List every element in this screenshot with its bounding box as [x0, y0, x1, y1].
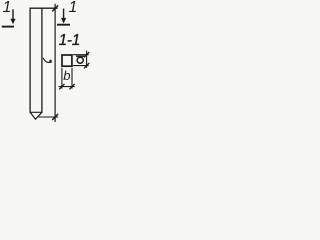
- tick bottom: [52, 114, 58, 120]
- pile right edge: [41, 8, 43, 113]
- tick top: [52, 5, 58, 11]
- dimension line l (vertical): [54, 4, 56, 122]
- label b (rotated, right): [76, 56, 85, 63]
- svg-text:1: 1: [3, 0, 12, 16]
- svg-text:b: b: [63, 68, 70, 83]
- section square: [62, 55, 72, 66]
- section arrow right: [61, 9, 66, 24]
- right b dimension: extension lines: [73, 54, 89, 56]
- pile shaft bottom line: [30, 111, 43, 113]
- bottom b ticks: [59, 84, 64, 89]
- section cut bar left: [2, 26, 14, 28]
- bottom extension line: [39, 116, 59, 118]
- label l (rotated script l): [43, 58, 52, 63]
- svg-text:1: 1: [69, 0, 78, 16]
- section cut bar right: [57, 24, 70, 26]
- right b ticks: [84, 52, 89, 57]
- section arrow left: [10, 9, 15, 24]
- bottom b dimension line: [59, 86, 75, 88]
- svg-text:1-1: 1-1: [59, 32, 81, 49]
- pile left edge: [29, 8, 31, 113]
- pile tip: [30, 112, 42, 119]
- bottom b dimension: extension lines: [61, 68, 63, 89]
- pile top edge + top extension line: [30, 7, 58, 9]
- right b dimension line: [86, 51, 88, 68]
